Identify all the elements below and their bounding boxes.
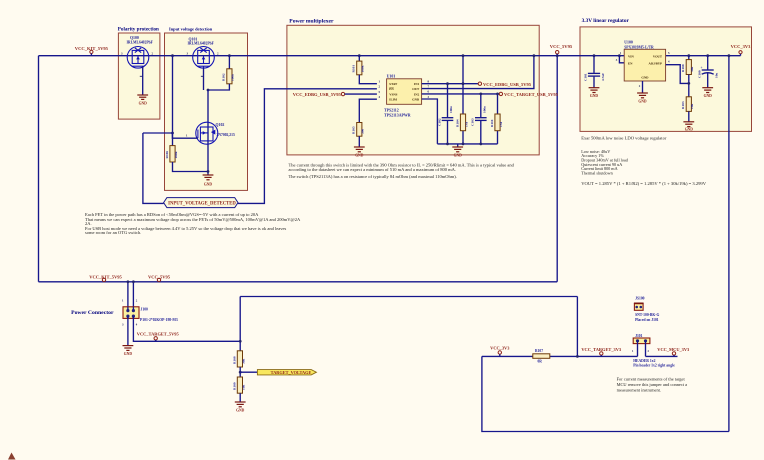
svg-text:10u: 10u <box>715 73 719 78</box>
svg-text:R109: R109 <box>232 382 236 390</box>
junction OUT riser on rail <box>533 54 536 57</box>
wire: IN1 pin <box>422 83 479 85</box>
wire: port to EN riser (right) <box>238 89 377 204</box>
power flag VCC_5V95 (bottom bus) <box>148 275 171 282</box>
svg-text:R105: R105 <box>352 126 356 134</box>
wire: GND pin down <box>422 99 438 144</box>
wire: ILIM pin to R105 <box>359 99 377 122</box>
svg-text:R102: R102 <box>222 73 226 81</box>
junction C100 tap <box>706 54 709 57</box>
op-amp U100 LDO regulator IC <box>616 41 670 88</box>
resistor R108 (divider top) <box>232 351 245 367</box>
wire: R109 to ground <box>239 393 241 402</box>
junction: R101 tap on main rail <box>358 54 361 57</box>
svg-text:GND: GND <box>139 102 148 106</box>
svg-text:J100: J100 <box>141 307 149 311</box>
svg-text:R101: R101 <box>352 65 356 73</box>
power flag VCC_5V95 (top, right of mux) <box>550 44 573 56</box>
wire: sense riser down to measurement rail <box>576 297 578 357</box>
junction EN tap <box>618 54 621 57</box>
svg-text:GND: GND <box>641 75 649 79</box>
svg-text:IN2: IN2 <box>414 92 420 96</box>
svg-text:Placed on J101: Placed on J101 <box>635 318 659 322</box>
resistor R102 (gate pullup) <box>222 69 235 84</box>
svg-text:MCU remove this jumper and con: MCU remove this jumper and connect a <box>617 382 688 387</box>
capacitor C101 <box>584 56 606 88</box>
svg-text:100k: 100k <box>361 65 365 72</box>
wire: IC GND pin down <box>642 81 644 93</box>
note: regulator features list <box>581 149 629 176</box>
net flag VCC_TARGET_5V95 <box>137 332 180 342</box>
ground under R105 <box>354 147 365 152</box>
svg-text:JS100: JS100 <box>635 297 645 301</box>
wire: divider riser <box>239 297 241 351</box>
svg-text:10k: 10k <box>241 385 245 390</box>
transistor Q101 <box>187 37 220 76</box>
wire: J100 pin3 to ground <box>127 316 129 346</box>
wire: bottom power bus <box>39 281 558 283</box>
junction: R102 top tap on main rail <box>228 54 231 57</box>
junction at VCC_5V95 riser on main rail <box>556 54 559 57</box>
ground under J100 <box>123 346 134 351</box>
wire: IN2 pin <box>422 93 500 95</box>
svg-text:VCC_5V95: VCC_5V95 <box>148 275 171 280</box>
wire: J100 pin4 to target rail <box>133 316 240 341</box>
svg-text:C102: C102 <box>437 118 441 126</box>
svg-text:30k: 30k <box>241 359 245 364</box>
svg-text:2N7002,215: 2N7002,215 <box>217 133 235 137</box>
junction: source/R106 rail <box>207 170 210 173</box>
wire: bottom VCC_3V3 return bus <box>482 356 729 431</box>
wire: R105 to ground <box>358 136 360 147</box>
resistor R105 (current limit) <box>352 123 365 137</box>
svg-text:GND: GND <box>355 154 364 158</box>
svg-text:C103: C103 <box>471 118 475 126</box>
wire: R103 to ground <box>688 111 690 121</box>
junction riser on IN1 <box>462 82 465 85</box>
svg-text:U100: U100 <box>624 41 633 45</box>
svg-text:C100: C100 <box>697 70 701 78</box>
wire: far right VCC_3V3 riser <box>728 56 730 432</box>
svg-text:U101: U101 <box>387 74 396 78</box>
wire: VOUT 3.3V rail <box>666 55 741 57</box>
ground under C100 <box>702 88 713 93</box>
junction R110 on IN2 <box>496 93 499 96</box>
svg-text:INPUT_VOLTAGE_DETECTED: INPUT_VOLTAGE_DETECTED <box>168 202 236 207</box>
connector J100 <box>122 299 178 327</box>
svg-text:For current measurements of th: For current measurements of the target <box>617 377 686 382</box>
resistor R106 (gate pulldown) <box>165 146 178 162</box>
junction feedback node <box>687 82 690 85</box>
svg-text:GND: GND <box>638 100 647 104</box>
svg-text:VIN: VIN <box>628 54 635 58</box>
transistor Q102 <box>186 122 235 144</box>
svg-text:GND: GND <box>124 352 133 356</box>
port INPUT_VOLTAGE_DETECTED <box>164 198 238 208</box>
svg-text:19k: 19k <box>690 104 694 109</box>
ground under Q100 <box>137 95 148 99</box>
junction divider mid <box>239 371 242 374</box>
svg-text:SNT-100-BK-G: SNT-100-BK-G <box>635 313 659 317</box>
wire: tap to TARGET_VOLTAGE port <box>240 371 257 373</box>
svg-text:measurement instrument.: measurement instrument. <box>617 388 661 393</box>
wire: R102 bottom to Q101 gate node and Q102 drain <box>208 84 229 90</box>
svg-text:3.3V linear regulator: 3.3V linear regulator <box>582 18 630 24</box>
junction riser on main rail <box>462 54 465 57</box>
wire: VCC_5V95 riser right of connector <box>556 56 558 282</box>
sheet-symbol box: 3.3V linear regulator <box>580 27 752 131</box>
net label VCC_EDBG_USB_5V95 at VSNS <box>293 92 377 97</box>
power flag VCC_3V3 (measurement rail) <box>490 346 510 357</box>
svg-text:VOUT = 1.285V * (1 + R1/R2) =: VOUT = 1.285V * (1 + R1/R2) = 1.285V * (… <box>581 181 707 186</box>
junction C101 tap <box>593 54 596 57</box>
wire: decoupling ground rail <box>437 143 497 145</box>
svg-text:100k: 100k <box>231 74 235 81</box>
svg-text:VCC_3V3: VCC_3V3 <box>490 346 510 351</box>
wire: EN tap to EN pin <box>619 56 624 63</box>
svg-text:IN1: IN1 <box>414 82 420 86</box>
wire: Q100 gate to ground <box>142 66 144 95</box>
wire: main 5V rail <box>39 55 625 57</box>
capacitor C102 branch <box>437 84 453 144</box>
svg-text:VCC_EDBG_USB_5V95: VCC_EDBG_USB_5V95 <box>293 92 342 97</box>
svg-text:EN: EN <box>389 87 394 91</box>
svg-text:GND: GND <box>204 183 213 187</box>
wire: Q102 source to ground rail <box>207 144 209 175</box>
resistor R101 (STAT pullup) <box>352 61 365 75</box>
wire: bus drops to J100 pins <box>127 282 129 311</box>
svg-text:according to the datasheet we: according to the datasheet we can expect… <box>289 167 456 172</box>
ground under R109 <box>235 402 246 407</box>
svg-text:TPS2113APWR: TPS2113APWR <box>384 114 411 118</box>
port TARGET_VOLTAGE (arrow) <box>257 370 316 375</box>
wire: feedback node <box>688 75 690 97</box>
wire: measurement rail with R107 and J101 <box>482 355 638 357</box>
wire: divider mid node <box>239 367 241 377</box>
junction: VCC_KIT tap for detection divider <box>171 54 174 57</box>
junction: gate node <box>171 132 174 135</box>
power flag VCC_KIT_5V95 (bottom bus) <box>89 275 122 282</box>
svg-text:IRLML6402PbF: IRLML6402PbF <box>127 41 154 45</box>
transistor Q100 <box>121 36 154 76</box>
svg-text:TARGET_VOLTAGE: TARGET_VOLTAGE <box>271 370 312 375</box>
capacitor C100 <box>697 56 718 88</box>
op-amp U101 power multiplexer IC body <box>379 74 430 117</box>
svg-text:+: + <box>701 66 703 70</box>
net label VCC_EDBG_USB_5V95 at IN1 <box>478 82 532 87</box>
note text about current limit <box>289 163 515 180</box>
power flag VCC_3V3 (regulator output) <box>731 44 751 56</box>
jumper JS100 <box>634 297 660 322</box>
wire: divider tap down to Q102 gate line <box>172 56 174 146</box>
svg-text:30k: 30k <box>690 67 694 72</box>
power flag VCC_KIT_5V95 (top left) <box>75 46 109 56</box>
svg-text:Q100: Q100 <box>130 36 139 40</box>
svg-text:VCC_3V3: VCC_3V3 <box>731 44 751 49</box>
svg-text:1M: 1M <box>464 121 468 127</box>
resistor R109 (divider bottom) <box>232 377 245 393</box>
note: current measurement instructions <box>617 377 688 393</box>
wire: J101 pins down to rail <box>637 341 639 357</box>
svg-text:VOUT: VOUT <box>653 54 663 58</box>
svg-text:VCC_MCU_3V3: VCC_MCU_3V3 <box>657 347 690 352</box>
wire: R106 bottom to source rail <box>173 162 209 172</box>
sheet-symbol box: Input voltage detection <box>165 33 248 190</box>
svg-text:some room for an OTG switch.: some room for an OTG switch. <box>85 230 141 235</box>
resistor R103 (feedback bottom) <box>681 97 694 112</box>
resistor R110 branch <box>490 94 503 144</box>
svg-text:GND: GND <box>590 94 599 98</box>
sheet-symbol box: Polarity protection <box>118 33 159 119</box>
svg-text:C101: C101 <box>584 73 588 81</box>
svg-text:VCC_EDBG_USB_5V95: VCC_EDBG_USB_5V95 <box>483 82 532 87</box>
note: header designation <box>633 359 675 368</box>
svg-text:Pin header 1x2 right angle: Pin header 1x2 right angle <box>633 364 675 368</box>
resistor R107 (0R shunt, horizontal) <box>533 349 550 363</box>
svg-text:Exar 500mA low noise LDO volta: Exar 500mA low noise LDO voltage regulat… <box>581 136 667 141</box>
sheet-symbol box: Power multiplexer <box>287 25 539 155</box>
svg-text:Polarity protection: Polarity protection <box>118 27 159 33</box>
junction divider/target rail <box>239 340 242 343</box>
svg-text:4.7uF: 4.7uF <box>601 73 605 81</box>
svg-text:GND: GND <box>412 97 420 101</box>
junction sense riser on measurement rail <box>576 355 579 358</box>
connector J101 <box>632 334 650 353</box>
svg-text:1M: 1M <box>499 121 503 127</box>
wire: rail down to R101 <box>358 56 360 61</box>
ground under R103 <box>683 122 694 127</box>
svg-text:Input voltage detection: Input voltage detection <box>169 27 213 32</box>
ground under decoupling rail <box>457 144 459 147</box>
net flag VCC_TARGET_3V3 <box>581 347 621 356</box>
wire: decoupling rail riser from main rail <box>462 56 464 144</box>
svg-text:ILIM: ILIM <box>389 98 397 102</box>
wire: left drop from input to bottom bus <box>38 56 40 282</box>
svg-text:Thermal shutdown: Thermal shutdown <box>581 170 613 175</box>
svg-text:R103: R103 <box>681 101 685 109</box>
svg-text:Power Connector: Power Connector <box>71 310 114 316</box>
svg-text:P101-2*02KOP-198-M3: P101-2*02KOP-198-M3 <box>140 318 178 322</box>
svg-text:EN: EN <box>628 61 633 65</box>
wire: R101 to STAT pin <box>359 75 377 84</box>
svg-text:VCC_TARGET_USB_5V95: VCC_TARGET_USB_5V95 <box>504 92 559 97</box>
wire: down to R102 <box>228 56 230 69</box>
svg-text:GND: GND <box>454 154 463 158</box>
ground under C101 <box>589 88 600 93</box>
svg-text:390: 390 <box>361 129 365 134</box>
svg-text:IRLML6402PbF: IRLML6402PbF <box>188 42 215 46</box>
svg-text:STAT: STAT <box>389 82 398 86</box>
wire: target voltage sense line <box>240 296 577 298</box>
svg-text:Power multiplexer: Power multiplexer <box>289 18 334 24</box>
net label VCC_TARGET_USB_5V95 at IN2 <box>499 92 558 97</box>
svg-text:OUT: OUT <box>412 87 420 91</box>
net flag VCC_MCU_3V3 <box>657 347 690 357</box>
svg-text:GND: GND <box>704 94 713 98</box>
wire: Q101 gate down to R102/Q102 node <box>203 68 205 90</box>
junction C103 on IN2 <box>479 93 482 96</box>
svg-text:ADJ/BYP: ADJ/BYP <box>649 61 663 65</box>
wire: measurement rail right of J101 <box>646 355 678 357</box>
svg-text:R107: R107 <box>535 349 543 353</box>
wire: OUT pin up to 5V rail <box>422 56 534 89</box>
svg-text:R108: R108 <box>232 356 236 364</box>
svg-text:The switch (TPS2113A) has a on: The switch (TPS2113A) has a on resistanc… <box>289 174 457 179</box>
svg-text:100k: 100k <box>174 151 178 158</box>
note text block about FET drops <box>85 212 301 235</box>
sheet corner mark <box>8 453 16 460</box>
resistor R104 branch <box>455 114 468 131</box>
junction C102 on IN1 <box>446 82 449 85</box>
svg-text:GND: GND <box>236 408 245 412</box>
wire: ADJ/BYP to feedback node <box>666 65 689 84</box>
svg-text:100n: 100n <box>449 106 453 113</box>
junctions on ground rail <box>446 143 449 146</box>
capacitor C103 branch <box>471 94 487 144</box>
junction: Q101 gate / R102 / Q102 drain node <box>207 89 210 92</box>
svg-text:VCC_5V95: VCC_5V95 <box>550 44 573 49</box>
svg-text:VSNS: VSNS <box>389 93 397 97</box>
ground under U100 <box>637 93 648 98</box>
wire: Q102 gate line <box>143 133 198 138</box>
svg-text:GND: GND <box>685 128 694 132</box>
svg-text:J101: J101 <box>635 334 643 338</box>
svg-text:R106: R106 <box>165 151 169 159</box>
junction far-right riser on VOUT rail <box>728 54 731 57</box>
svg-text:Q102: Q102 <box>216 123 225 127</box>
svg-text:R104: R104 <box>455 119 459 127</box>
svg-text:0R: 0R <box>538 359 543 363</box>
svg-text:VCC_TARGET_5V95: VCC_TARGET_5V95 <box>137 332 180 337</box>
resistor R100 (feedback top) <box>681 56 694 75</box>
svg-text:TPS2112: TPS2112 <box>384 108 399 112</box>
wire: port riser (left) <box>143 133 164 203</box>
svg-text:100n: 100n <box>482 106 486 113</box>
svg-text:SPX3819M5-L/TR: SPX3819M5-L/TR <box>624 45 654 49</box>
svg-text:R100: R100 <box>681 64 685 72</box>
wire: node down to Q102 drain <box>207 90 209 144</box>
ground under Q102 <box>203 175 214 180</box>
junction R100 tap on VOUT rail <box>687 54 690 57</box>
svg-text:HEADER 1x2: HEADER 1x2 <box>633 359 655 363</box>
svg-text:R110: R110 <box>490 119 494 127</box>
